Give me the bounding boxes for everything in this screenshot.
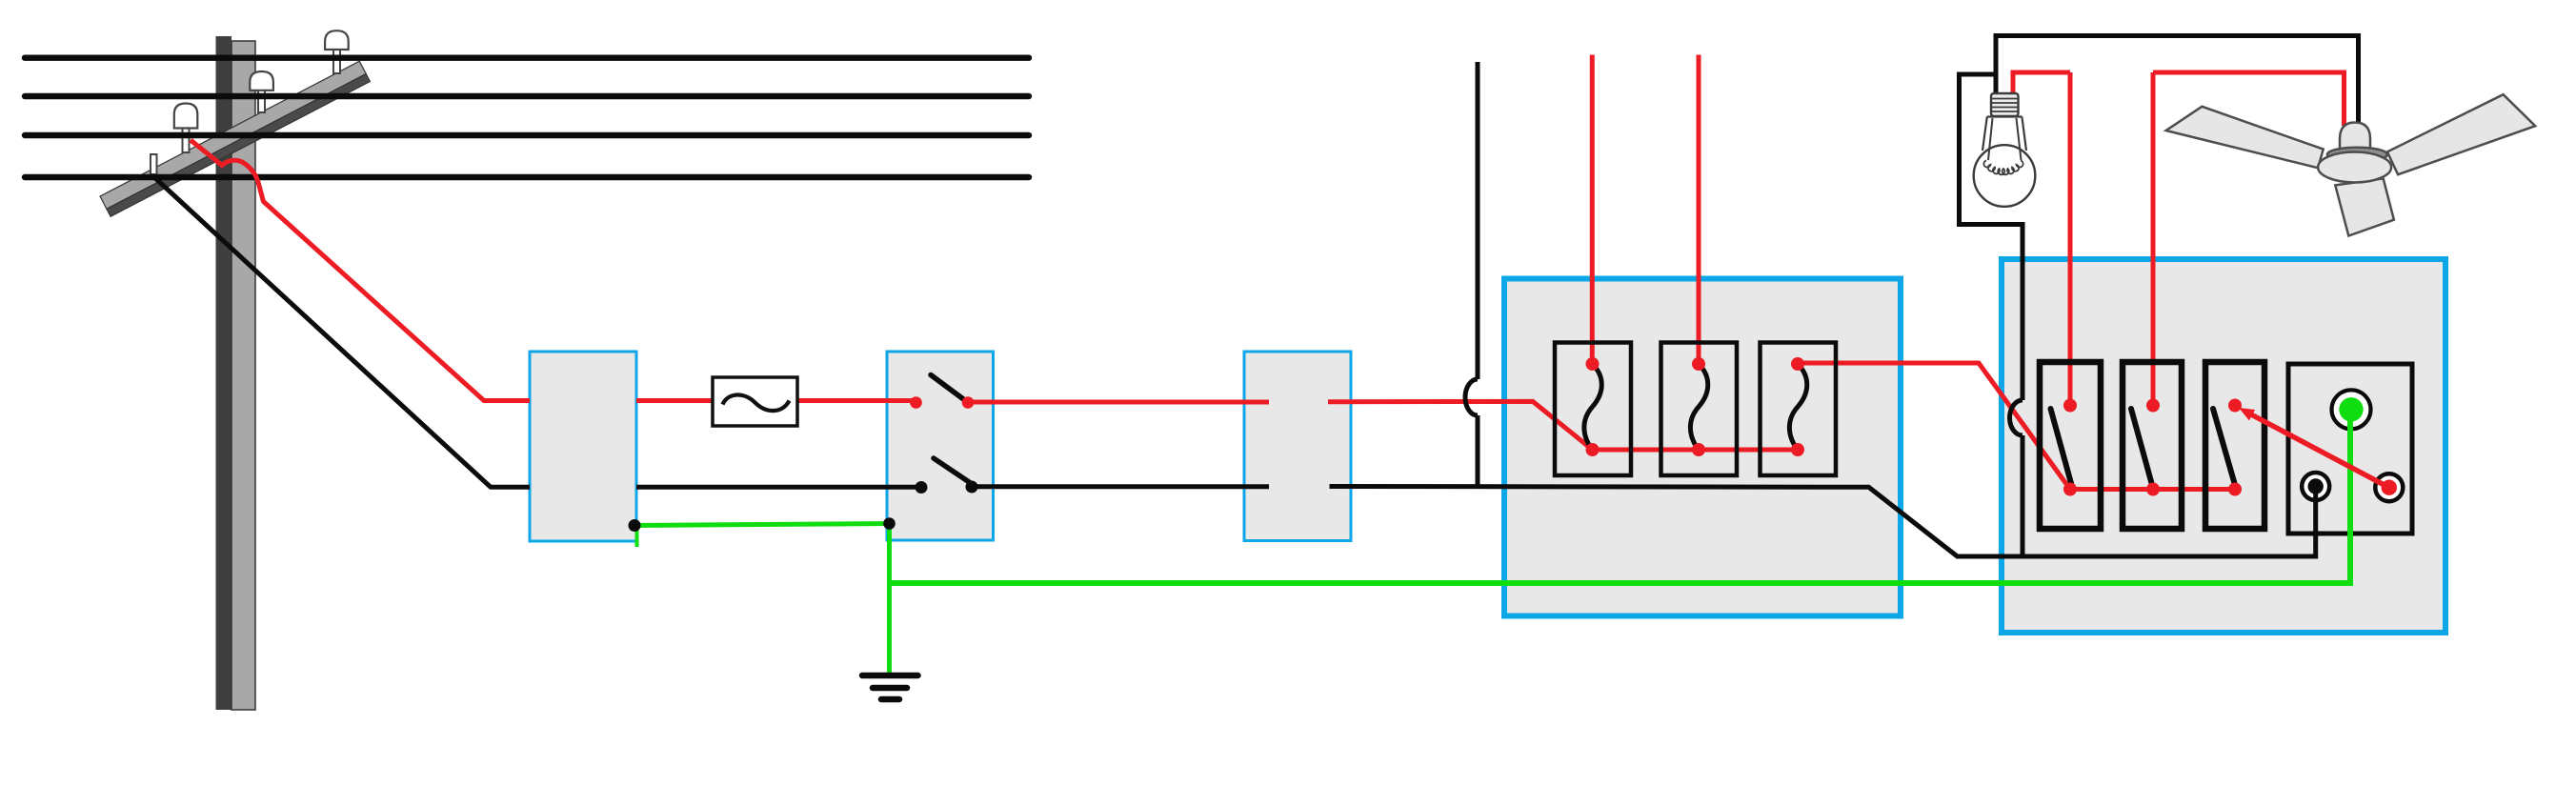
insulator I3 [325,30,349,73]
sub-circuit riser (black vertical with hop) [1465,62,1478,487]
ceiling fan [2166,94,2536,235]
live bus joining fuse bottoms [1593,448,1799,453]
live wire junction box to fuse F1 [1328,401,1593,450]
fuse box (distribution board) [1504,279,1901,616]
neutral top run to bulb and fan [1996,36,2359,130]
earth wire meter to main switch [634,524,890,526]
fan dome [2340,123,2370,156]
service wire neutral (black) [155,178,530,487]
live riser from fuse F1 [1590,55,1595,365]
neutral loop around bulb into switchboard [1960,74,2023,556]
earth wire down to ground rod [887,524,892,675]
junction box [1244,352,1351,541]
light bulb [1974,93,2036,207]
power line L4 [25,174,1029,180]
power line L2 [25,93,1029,99]
fuse F2 [1661,343,1738,476]
fan motor body [2318,152,2391,183]
insulator I2 [250,71,273,112]
insulator I1 [174,104,198,153]
earth run to socket [890,410,2351,583]
live riser from fuse F2 [1697,55,1701,365]
fuse F1 [1555,343,1631,476]
switch S1 [2040,362,2101,529]
socket pin dots [2308,397,2398,495]
main switch box [887,352,994,540]
power line L1 [25,55,1029,61]
live bus joining switch bottoms [2070,487,2235,492]
neutral wire meter to main switch [636,485,921,490]
fan collar [2327,148,2387,162]
live riser switch S2 to fan [2151,72,2156,406]
earth junction dot on meter [629,519,641,532]
live wire to fan [2153,72,2345,126]
switch S2 [2123,362,2182,529]
neutral wire junction box to switchboard [1330,487,2316,557]
socket outlet plate [2288,364,2412,534]
insulator pin stub [151,154,157,174]
neutral wire main switch to junction box [972,484,1269,489]
power line L3 [25,132,1029,138]
main switch live pole [910,375,974,409]
live wire fuse F3 to switch S1 [1798,363,2070,490]
earth stub under meter [635,526,639,548]
main switch neutral pole [916,458,978,494]
fan blade right [2387,94,2535,174]
energy meter box [530,352,636,541]
live arrow socket to switch S3 [2239,408,2389,488]
fan blade left [2166,107,2324,168]
fan blade bottom [2335,178,2394,235]
utility pole [216,36,256,710]
ground symbol [862,675,918,699]
live wire meter to main switch [636,398,916,403]
cross-arm [100,61,370,216]
earth junction dot on main switch [883,517,896,530]
live wire main switch to junction box [968,400,1269,405]
live riser switch S1 to bulb [2068,72,2073,406]
service wire live (red) [191,140,530,401]
AC supply symbol box [713,377,797,426]
live wire to bulb [2013,72,2070,92]
switchboard box [2002,259,2445,633]
fuse F3 [1761,343,1837,476]
switch S3 [2205,362,2264,529]
